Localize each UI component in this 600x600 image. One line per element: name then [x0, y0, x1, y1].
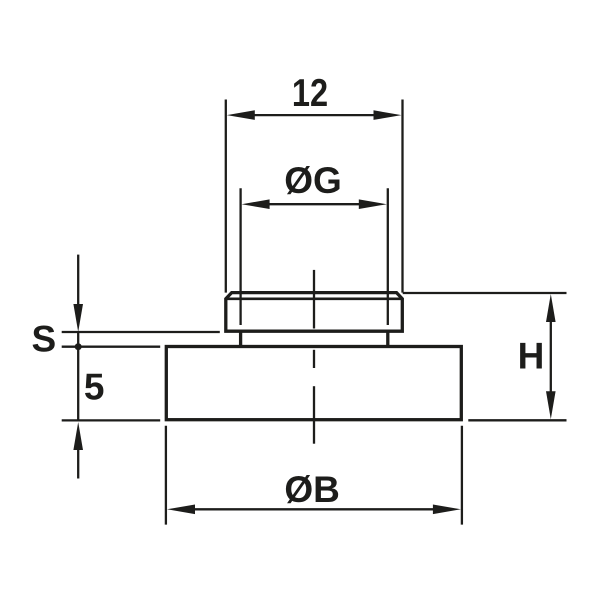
neck right edge — [386, 331, 389, 346]
centerline vertical axis — [313, 270, 315, 444]
svg-text:12: 12 — [292, 71, 328, 114]
dimension OG extension line left — [239, 188, 241, 325]
OB dimension line — [194, 508, 433, 510]
H dimension line — [550, 321, 552, 392]
svg-text:S: S — [31, 318, 56, 359]
OB extension line right — [461, 426, 463, 525]
5 dimension line — [77, 331, 79, 421]
neck left edge — [239, 331, 242, 346]
svg-text:ØG: ØG — [284, 160, 342, 201]
S extension line boss bottom left — [62, 331, 220, 333]
dimension OG line — [269, 203, 360, 205]
dimension 12 extension line right — [401, 100, 403, 293]
dimension 12 arrow right — [374, 110, 402, 120]
S dimension line with down arrow — [77, 255, 79, 305]
OB arrow left — [167, 505, 195, 515]
OB extension line left — [165, 426, 167, 525]
S-5 shared dot terminator — [75, 343, 82, 350]
5 extension line base bottom left — [62, 419, 161, 421]
dimension 12 line — [254, 114, 374, 116]
svg-text:H: H — [518, 336, 545, 377]
base disc outline — [166, 347, 461, 420]
H extension line top right — [403, 292, 567, 294]
label 12 — [292, 71, 328, 114]
dimension OG extension line right — [387, 188, 389, 325]
dimension 12 extension line left — [225, 100, 227, 293]
boss chamfer line — [226, 297, 402, 300]
dimension OG arrow right — [359, 199, 387, 209]
OB arrow right — [433, 505, 461, 515]
H dimension arrow up — [546, 294, 556, 322]
dimension 12 arrow left — [227, 110, 255, 120]
S extension line base top left — [62, 346, 161, 348]
svg-text:ØB: ØB — [284, 469, 340, 510]
dimension OG arrow left — [242, 199, 270, 209]
H extension line bottom right — [468, 419, 566, 421]
svg-text:5: 5 — [84, 367, 105, 408]
5 dimension up arrow below — [73, 422, 83, 450]
H dimension arrow down — [546, 391, 556, 419]
boss outline with chamfered top corners — [226, 293, 402, 332]
